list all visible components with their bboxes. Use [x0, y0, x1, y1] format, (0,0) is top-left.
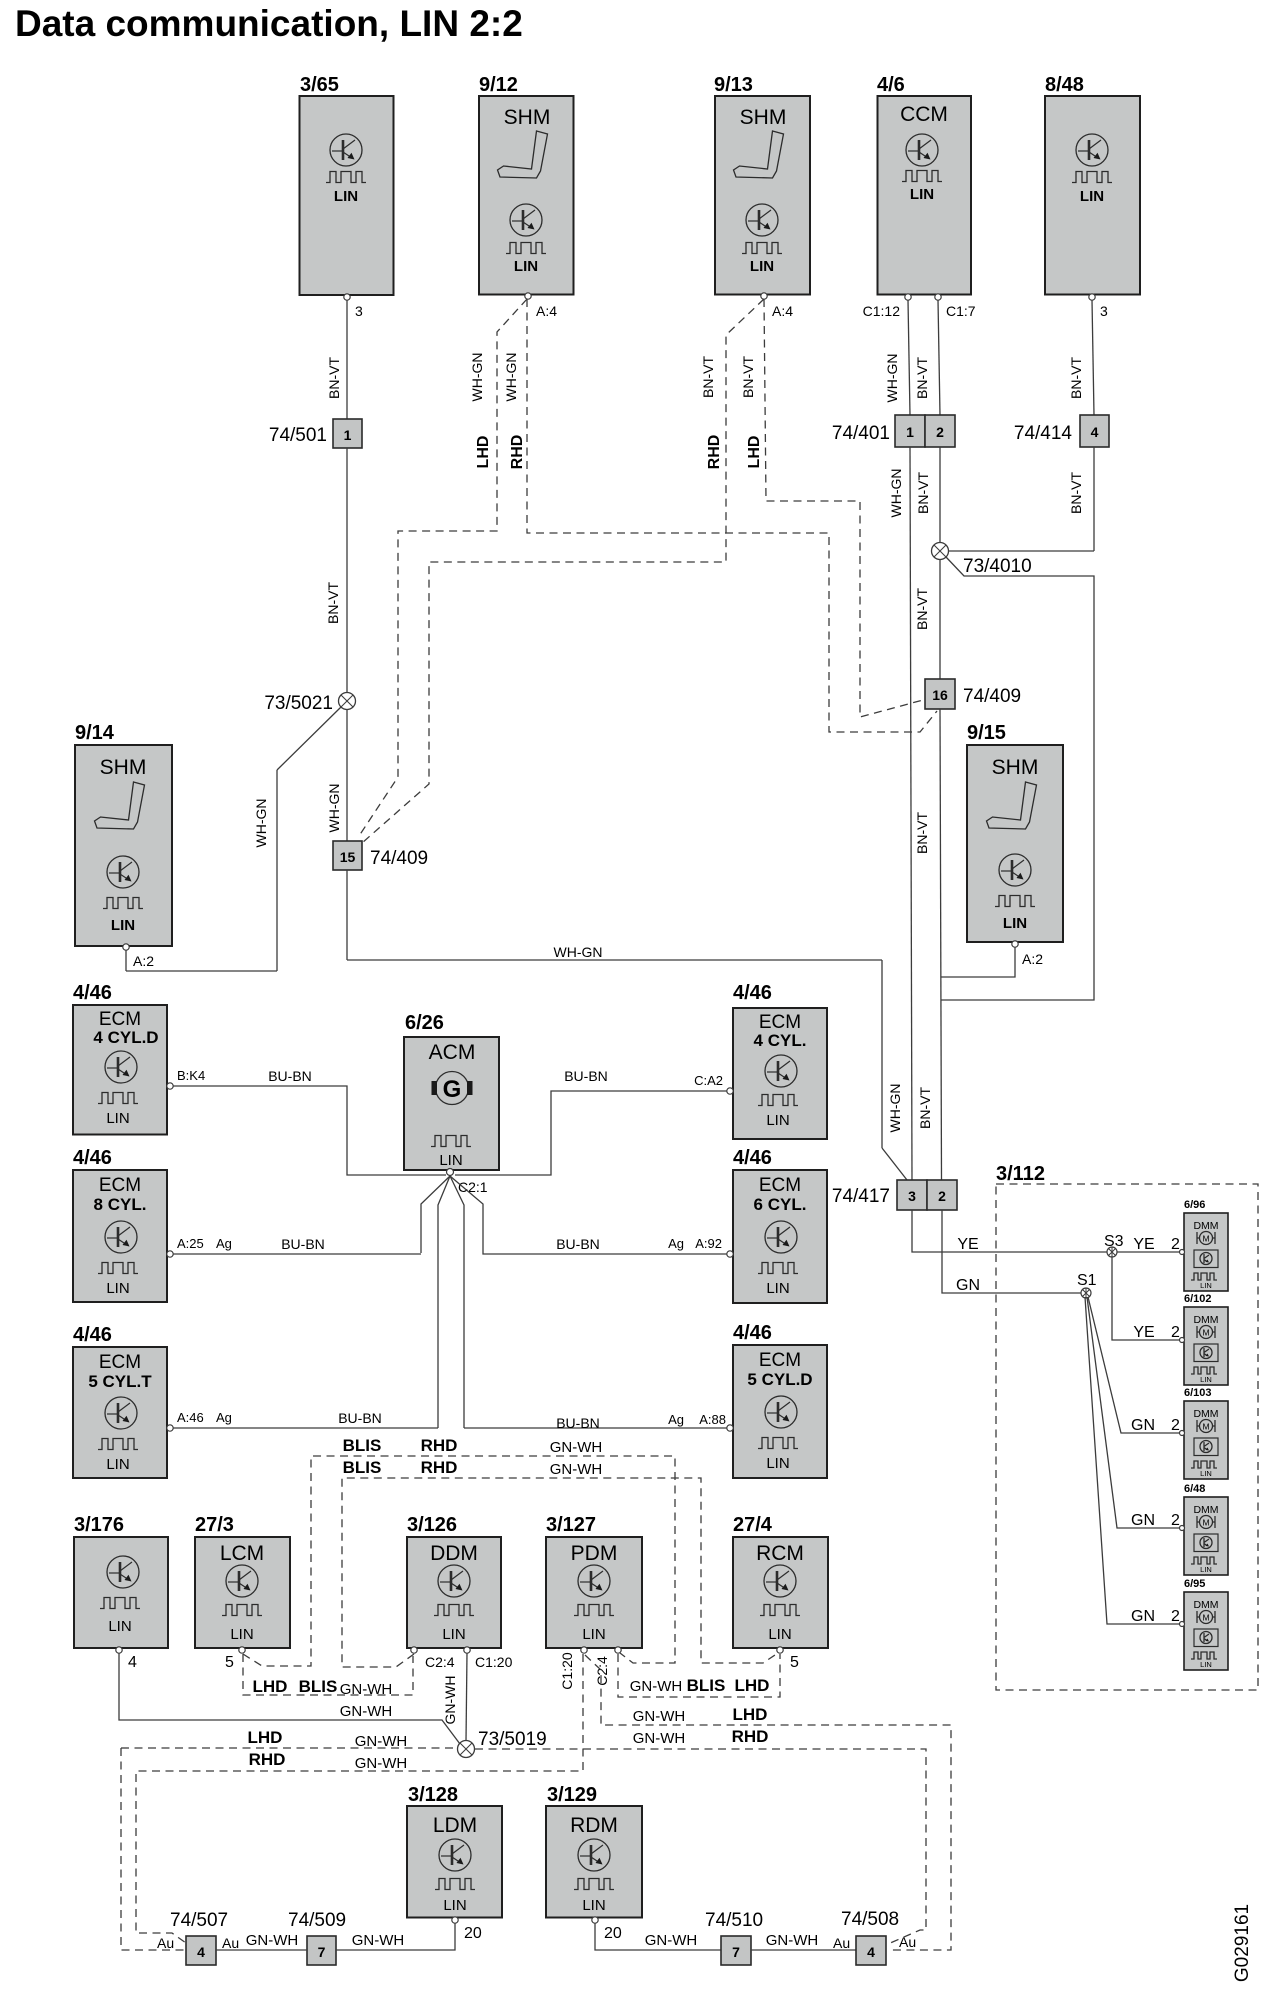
svg-text:LIN: LIN — [582, 1897, 605, 1914]
wire GN-WH 74/507 to 74/509 — [216, 1932, 307, 1950]
svg-text:74/401: 74/401 — [832, 423, 890, 444]
module DMM 6/102 — [1180, 1293, 1229, 1385]
dashed wire RHD line 74/507 to PDM C1:20 — [136, 1654, 583, 1943]
svg-text:BLIS: BLIS — [343, 1436, 382, 1455]
svg-text:G029161: G029161 — [1232, 1904, 1253, 1982]
svg-text:4/6: 4/6 — [877, 74, 905, 96]
wire GN-WH 3/176 pin4 to junction 73/5019 — [119, 1653, 460, 1744]
svg-text:4/46: 4/46 — [733, 1322, 772, 1344]
wire A:46 to ACM — [173, 1410, 438, 1428]
svg-text:4: 4 — [197, 1944, 205, 1960]
svg-text:GN-WH: GN-WH — [442, 1676, 458, 1725]
svg-text:Au: Au — [833, 1935, 850, 1951]
svg-text:LIN: LIN — [106, 1280, 129, 1297]
svg-text:4/46: 4/46 — [73, 982, 112, 1004]
wire GN-WH 74/510 to 74/508 — [751, 1932, 856, 1950]
svg-text:LIN: LIN — [766, 1280, 789, 1297]
connector 74/509 pin 7 — [288, 1910, 346, 1965]
svg-text:BN-VT: BN-VT — [700, 356, 716, 398]
svg-text:73/5019: 73/5019 — [478, 1729, 547, 1750]
svg-text:LHD: LHD — [735, 1676, 770, 1695]
connector 74/409 pin 15 — [333, 841, 428, 870]
svg-text:A:88: A:88 — [699, 1412, 726, 1427]
module 9/12 SHM — [479, 74, 574, 299]
wire junction 73/5021 to 9/14 A:2 — [126, 707, 341, 971]
svg-text:C1:20: C1:20 — [559, 1652, 575, 1690]
svg-text:74/509: 74/509 — [288, 1910, 346, 1931]
svg-text:BN-VT: BN-VT — [915, 472, 931, 514]
svg-text:LHD: LHD — [248, 1728, 283, 1747]
svg-text:LIN: LIN — [768, 1626, 791, 1643]
module 3/65 — [300, 74, 394, 300]
wire GN S1 to 6/103 — [1088, 1297, 1184, 1434]
svg-text:Au: Au — [157, 1935, 174, 1951]
dashed wire BLIS RHD line2 DDM C2:4 to RCM5 — [342, 1458, 778, 1667]
svg-text:BN-VT: BN-VT — [914, 812, 930, 854]
svg-text:3/129: 3/129 — [547, 1784, 597, 1806]
dashed wire LHD from 9/12 A:4 to 74/409 pin15 — [359, 299, 557, 836]
svg-text:3: 3 — [908, 1188, 916, 1204]
svg-text:Ag: Ag — [216, 1410, 232, 1425]
svg-text:9/15: 9/15 — [967, 722, 1006, 744]
svg-text:ECM: ECM — [99, 1175, 141, 1196]
svg-text:GN-WH: GN-WH — [340, 1681, 393, 1698]
node C2:1 fan — [421, 1176, 488, 1428]
svg-text:RDM: RDM — [570, 1814, 618, 1837]
svg-text:5 CYL.D: 5 CYL.D — [747, 1370, 812, 1389]
svg-text:3/126: 3/126 — [407, 1514, 457, 1536]
svg-text:74/409: 74/409 — [963, 686, 1021, 707]
dashed wire BLIS RHD line1 LCM5 to PDM C2:4 — [243, 1436, 675, 1666]
svg-text:73/4010: 73/4010 — [963, 556, 1032, 577]
svg-text:ECM: ECM — [759, 1350, 801, 1371]
wire 74/401 pin1 to 74/417 pin3 WH-GN — [887, 447, 912, 1180]
module ECM 5 CYL.D — [727, 1322, 827, 1478]
svg-text:BLIS: BLIS — [343, 1458, 382, 1477]
svg-text:RHD: RHD — [249, 1750, 286, 1769]
module 9/13 SHM — [714, 74, 810, 299]
module DMM 6/96 — [1180, 1199, 1229, 1291]
dashed wire RHD from 9/12 A:4 to 74/409 pin16 — [503, 299, 937, 732]
dashed wire RHD from 9/13 A:4 to 74/409 pin15 — [362, 299, 793, 843]
wire 74/414 pin4 to junction 73/4010 — [947, 447, 1094, 551]
wire CCM C1:7 to 74/401 pin2 — [914, 300, 976, 415]
svg-text:WH-GN: WH-GN — [469, 353, 485, 402]
junction S3 — [1104, 1233, 1124, 1257]
wire A:25 to ACM — [173, 1236, 421, 1254]
module 9/14 SHM — [75, 722, 172, 969]
dashed wire BLIS LHD LCM5 to DDM C2:4 — [243, 1654, 413, 1698]
svg-text:GN: GN — [1131, 1512, 1155, 1529]
wire junction 73/5021 to 74/409 pin15 — [326, 710, 347, 841]
svg-text:4: 4 — [867, 1944, 875, 1960]
svg-text:BLIS: BLIS — [299, 1677, 338, 1696]
junction 73/5021 — [264, 693, 355, 715]
svg-text:SHM: SHM — [100, 756, 147, 779]
svg-text:BLIS: BLIS — [687, 1676, 726, 1695]
svg-text:1: 1 — [906, 424, 914, 440]
svg-text:C1:20: C1:20 — [475, 1654, 513, 1670]
svg-text:C2:4: C2:4 — [594, 1656, 610, 1686]
svg-text:2: 2 — [1171, 1417, 1180, 1434]
module 8/48 — [1045, 74, 1140, 300]
svg-text:3/128: 3/128 — [408, 1784, 458, 1806]
svg-text:LIN: LIN — [750, 258, 774, 275]
svg-text:ECM: ECM — [99, 1009, 141, 1030]
svg-text:BN-VT: BN-VT — [1068, 472, 1084, 514]
svg-text:GN-WH: GN-WH — [340, 1703, 393, 1720]
svg-text:5: 5 — [790, 1654, 799, 1671]
junction 73/5019 — [458, 1729, 547, 1758]
svg-text:LIN: LIN — [108, 1618, 131, 1635]
wire A:92 to ACM — [483, 1236, 727, 1254]
module 27/3 LCM — [195, 1514, 290, 1671]
svg-text:LIN: LIN — [334, 188, 358, 205]
wire junction 73/4010 to 74/409 pin16 — [914, 560, 940, 679]
svg-text:3/127: 3/127 — [546, 1514, 596, 1536]
svg-text:SHM: SHM — [740, 106, 787, 129]
module DMM 6/48 — [1180, 1483, 1229, 1575]
svg-text:RHD: RHD — [732, 1727, 769, 1746]
module 3/129 RDM — [546, 1784, 642, 1942]
svg-text:74/501: 74/501 — [269, 425, 327, 446]
svg-text:15: 15 — [340, 849, 356, 865]
connector 74/409 pin 16 — [925, 679, 1021, 709]
svg-text:LIN: LIN — [443, 1897, 466, 1914]
connector 74/417 pins 3,2 — [832, 1180, 957, 1210]
svg-text:LIN: LIN — [230, 1626, 253, 1643]
svg-text:LIN: LIN — [910, 186, 934, 203]
svg-text:Ag: Ag — [668, 1236, 684, 1251]
svg-text:LIN: LIN — [1080, 188, 1104, 205]
svg-text:Ag: Ag — [668, 1412, 684, 1427]
svg-text:BN-VT: BN-VT — [740, 356, 756, 398]
svg-text:9/12: 9/12 — [479, 74, 518, 96]
svg-text:9/14: 9/14 — [75, 722, 115, 744]
svg-text:CCM: CCM — [900, 103, 948, 126]
connector 74/508 pin 4 — [833, 1909, 916, 1965]
svg-text:BN-VT: BN-VT — [914, 588, 930, 630]
dashed wire BLIS LHD PDM C2:4 to RCM5 — [618, 1654, 780, 1697]
junction 73/4010 — [932, 543, 1032, 578]
svg-text:LIN: LIN — [514, 258, 538, 275]
svg-text:7: 7 — [732, 1944, 740, 1960]
svg-text:2: 2 — [1171, 1512, 1180, 1529]
svg-text:2: 2 — [936, 424, 944, 440]
module 3/176 — [74, 1514, 168, 1671]
svg-text:LIN: LIN — [106, 1110, 129, 1127]
svg-text:GN-WH: GN-WH — [550, 1461, 603, 1478]
svg-text:C2:4: C2:4 — [425, 1654, 455, 1670]
wire GN-WH 74/509 to LDM pin20 — [336, 1923, 455, 1950]
wire junction 73/4010 branch to 74/417 pin2 via right side — [941, 557, 1094, 1000]
svg-text:LHD: LHD — [733, 1705, 768, 1724]
connector 74/510 pin 7 — [705, 1910, 763, 1965]
svg-text:YE: YE — [1133, 1324, 1154, 1341]
svg-text:RHD: RHD — [421, 1436, 458, 1455]
svg-text:GN-WH: GN-WH — [352, 1932, 405, 1949]
svg-text:WH-GN: WH-GN — [884, 354, 900, 403]
wire CCM C1:12 to 74/401 pin1 — [863, 300, 910, 415]
wire 74/501 to junction 73/5021 — [325, 448, 347, 692]
svg-text:LHD: LHD — [253, 1677, 288, 1696]
wire 74/401 pin2 to junction 73/4010 — [915, 447, 940, 542]
svg-text:C1:7: C1:7 — [946, 303, 976, 319]
svg-text:4: 4 — [1091, 424, 1099, 440]
svg-text:74/409: 74/409 — [370, 848, 428, 869]
svg-text:A:2: A:2 — [133, 953, 154, 969]
svg-text:GN: GN — [1131, 1608, 1155, 1625]
wire C:A2 to ACM C2:1 — [455, 1068, 727, 1175]
svg-text:ECM: ECM — [99, 1352, 141, 1373]
svg-text:4 CYL.: 4 CYL. — [754, 1031, 807, 1050]
svg-text:4/46: 4/46 — [73, 1147, 112, 1169]
module DMM 6/95 — [1180, 1578, 1229, 1670]
svg-text:C:A2: C:A2 — [694, 1073, 723, 1088]
svg-text:GN-WH: GN-WH — [633, 1708, 686, 1725]
svg-text:27/3: 27/3 — [195, 1514, 234, 1536]
svg-text:2: 2 — [1171, 1324, 1180, 1341]
svg-text:RHD: RHD — [421, 1458, 458, 1477]
svg-text:A:25: A:25 — [177, 1236, 204, 1251]
svg-text:RHD: RHD — [706, 435, 723, 470]
svg-text:BN-VT: BN-VT — [917, 1087, 933, 1129]
svg-text:C1:12: C1:12 — [863, 303, 901, 319]
svg-text:LIN: LIN — [106, 1456, 129, 1473]
module 27/4 RCM — [733, 1514, 828, 1671]
svg-text:WH-GN: WH-GN — [888, 469, 904, 518]
svg-text:5 CYL.T: 5 CYL.T — [88, 1372, 152, 1391]
svg-text:9/13: 9/13 — [714, 74, 753, 96]
svg-text:2: 2 — [1171, 1608, 1180, 1625]
svg-text:LIN: LIN — [582, 1626, 605, 1643]
wire 8/48 pin3 to 74/414 pin4 — [1068, 300, 1108, 415]
svg-text:6/102: 6/102 — [1184, 1293, 1212, 1305]
wire GN S1 to 6/48 — [1087, 1297, 1184, 1529]
wire 74/409 pin16 to 74/417 pin2 BN-VT — [914, 709, 942, 1180]
svg-text:Data communication, LIN 2:2: Data communication, LIN 2:2 — [15, 3, 523, 44]
wire YE 74/417 pin3 to S3 and 6/96 — [912, 1210, 1182, 1253]
wire GN-WH RDM pin20 to 74/510 — [595, 1923, 721, 1950]
svg-text:6 CYL.: 6 CYL. — [754, 1195, 807, 1214]
svg-text:6/26: 6/26 — [405, 1012, 444, 1034]
svg-text:6/95: 6/95 — [1184, 1578, 1205, 1590]
module 3/127 PDM — [546, 1514, 642, 1690]
svg-text:S1: S1 — [1077, 1272, 1097, 1289]
svg-text:LHD: LHD — [746, 436, 763, 469]
wire GN S1 to 6/95 — [1085, 1297, 1185, 1625]
svg-text:3: 3 — [355, 303, 363, 319]
svg-text:2: 2 — [1171, 1236, 1180, 1253]
svg-text:WH-GN: WH-GN — [326, 784, 342, 833]
module 3/126 DDM — [407, 1514, 513, 1670]
svg-text:ECM: ECM — [759, 1175, 801, 1196]
svg-text:GN-WH: GN-WH — [355, 1733, 408, 1750]
dashed wire LHD line PDM C1:20 to 74/508 — [585, 1655, 951, 1950]
junction S1 — [1077, 1272, 1097, 1298]
svg-text:GN-WH: GN-WH — [630, 1678, 683, 1695]
svg-text:BU-BN: BU-BN — [556, 1236, 600, 1252]
svg-text:Ag: Ag — [216, 1236, 232, 1251]
svg-text:SHM: SHM — [992, 756, 1039, 779]
module 9/15 SHM — [967, 722, 1063, 967]
svg-text:B:K4: B:K4 — [177, 1068, 205, 1083]
svg-text:74/417: 74/417 — [832, 1186, 890, 1207]
module ECM 4 CYL. — [727, 982, 827, 1139]
connector 74/401 pins 1,2 — [832, 415, 955, 447]
svg-text:73/5021: 73/5021 — [264, 693, 333, 714]
svg-text:1: 1 — [344, 427, 352, 443]
svg-text:BN-VT: BN-VT — [914, 357, 930, 399]
svg-text:LIN: LIN — [111, 917, 135, 934]
svg-text:6/96: 6/96 — [1184, 1199, 1205, 1211]
svg-text:WH-GN: WH-GN — [554, 944, 603, 960]
dashed wire LHD from 9/13 A:4 to 74/409 pin16 — [740, 299, 923, 717]
svg-text:74/508: 74/508 — [841, 1909, 899, 1930]
svg-text:74/414: 74/414 — [1014, 423, 1073, 444]
svg-text:BU-BN: BU-BN — [281, 1236, 325, 1252]
svg-text:2: 2 — [938, 1188, 946, 1204]
module ECM 6 CYL. — [727, 1147, 827, 1303]
wire YE S3 to 6/102 — [1112, 1257, 1182, 1341]
svg-text:GN-WH: GN-WH — [633, 1730, 686, 1747]
svg-text:GN-WH: GN-WH — [645, 1932, 698, 1949]
svg-text:4/46: 4/46 — [733, 1147, 772, 1169]
svg-text:20: 20 — [604, 1925, 622, 1942]
wire 3/65 pin3 to 74/501 — [326, 300, 363, 419]
svg-text:BU-BN: BU-BN — [338, 1410, 382, 1426]
svg-text:4: 4 — [128, 1654, 137, 1671]
svg-text:6/48: 6/48 — [1184, 1483, 1205, 1495]
svg-text:YE: YE — [957, 1236, 978, 1253]
module 3/128 LDM — [407, 1784, 502, 1942]
svg-text:LDM: LDM — [433, 1814, 477, 1837]
connector 74/501 pin 1 — [269, 419, 362, 448]
svg-text:3: 3 — [1100, 303, 1108, 319]
module ECM 5 CYL.T — [73, 1324, 173, 1478]
svg-text:5: 5 — [225, 1654, 234, 1671]
svg-text:BN-VT: BN-VT — [326, 357, 342, 399]
svg-text:LIN: LIN — [442, 1626, 465, 1643]
svg-text:GN: GN — [1131, 1417, 1155, 1434]
connector 74/414 pin 4 — [1014, 415, 1109, 447]
svg-text:WH-GN: WH-GN — [253, 799, 269, 848]
svg-text:LIN: LIN — [439, 1152, 462, 1169]
svg-text:GN-WH: GN-WH — [550, 1439, 603, 1456]
svg-text:74/510: 74/510 — [705, 1910, 763, 1931]
svg-text:Au: Au — [222, 1935, 239, 1951]
svg-text:BN-VT: BN-VT — [325, 582, 341, 624]
dashed wire LHD line 74/507 to 74/508 through junction — [121, 1727, 926, 1950]
svg-text:GN-WH: GN-WH — [246, 1932, 299, 1949]
svg-text:A:92: A:92 — [695, 1236, 722, 1251]
svg-text:20: 20 — [464, 1925, 482, 1942]
svg-text:A:46: A:46 — [177, 1410, 204, 1425]
wire 9/15 A:2 to BN-VT line — [941, 947, 1015, 977]
svg-text:DDM: DDM — [430, 1542, 478, 1565]
wire A:88 to ACM — [464, 1412, 727, 1431]
svg-text:4/46: 4/46 — [73, 1324, 112, 1346]
svg-text:WH-GN: WH-GN — [503, 353, 519, 402]
svg-text:74/507: 74/507 — [170, 1910, 228, 1931]
svg-text:8/48: 8/48 — [1045, 74, 1084, 96]
wire B:K4 to ACM C2:1 — [173, 1068, 446, 1175]
svg-text:LIN: LIN — [766, 1455, 789, 1472]
svg-text:BN-VT: BN-VT — [1068, 357, 1084, 399]
svg-text:3/65: 3/65 — [300, 74, 339, 96]
svg-text:GN: GN — [956, 1277, 980, 1294]
svg-text:16: 16 — [932, 687, 948, 703]
dashed box 3/112 — [996, 1163, 1258, 1690]
svg-text:RHD: RHD — [509, 435, 526, 470]
svg-text:YE: YE — [1133, 1236, 1154, 1253]
svg-text:ECM: ECM — [759, 1012, 801, 1033]
connector 74/507 pin 4 — [157, 1910, 239, 1965]
svg-text:G: G — [443, 1076, 462, 1103]
wire WH-GN from 74/409 pin15 to 74/417 pin3 — [347, 870, 907, 1180]
svg-text:Au: Au — [899, 1934, 916, 1950]
svg-text:LIN: LIN — [766, 1112, 789, 1129]
module DMM 6/103 — [1180, 1387, 1229, 1479]
svg-text:8 CYL.: 8 CYL. — [94, 1195, 147, 1214]
wire GN 74/417 pin2 to S1 — [942, 1210, 1081, 1294]
svg-text:LHD: LHD — [475, 436, 492, 469]
svg-text:A:4: A:4 — [536, 303, 557, 319]
module ECM 8 CYL. — [73, 1147, 173, 1302]
svg-text:BU-BN: BU-BN — [556, 1415, 600, 1431]
svg-text:3/112: 3/112 — [996, 1163, 1045, 1185]
svg-text:7: 7 — [318, 1944, 326, 1960]
svg-text:GN-WH: GN-WH — [355, 1755, 408, 1772]
svg-text:RCM: RCM — [756, 1542, 804, 1565]
svg-text:A:2: A:2 — [1022, 951, 1043, 967]
svg-text:4 CYL.D: 4 CYL.D — [93, 1028, 158, 1047]
svg-text:ACM: ACM — [429, 1041, 476, 1064]
svg-text:LIN: LIN — [1003, 915, 1027, 932]
svg-text:WH-GN: WH-GN — [887, 1084, 903, 1133]
svg-text:6/103: 6/103 — [1184, 1387, 1212, 1399]
module ACM 6/26 — [404, 1012, 499, 1176]
svg-text:LCM: LCM — [220, 1542, 264, 1565]
module 4/6 CCM — [877, 74, 971, 300]
svg-text:PDM: PDM — [571, 1542, 618, 1565]
svg-text:27/4: 27/4 — [733, 1514, 773, 1536]
svg-text:A:4: A:4 — [772, 303, 793, 319]
svg-text:GN-WH: GN-WH — [766, 1932, 819, 1949]
wire GN-WH DDM C1:20 to junction 73/5019 — [442, 1653, 467, 1741]
svg-text:4/46: 4/46 — [733, 982, 772, 1004]
svg-text:BU-BN: BU-BN — [564, 1068, 608, 1084]
module ECM 4 CYL.D — [73, 982, 173, 1135]
svg-text:BU-BN: BU-BN — [268, 1068, 312, 1084]
svg-text:3/176: 3/176 — [74, 1514, 124, 1536]
svg-text:SHM: SHM — [504, 106, 551, 129]
